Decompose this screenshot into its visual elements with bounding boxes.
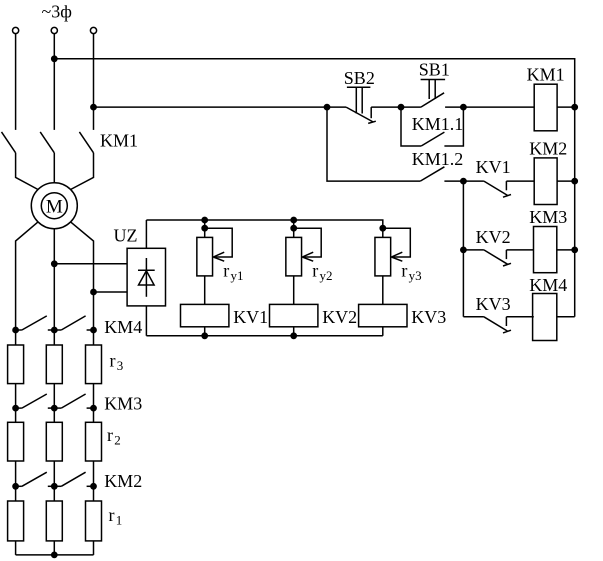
label r3 (110, 351, 124, 374)
wire KM2 row to r1 (15, 486, 17, 501)
svg-text:r: r (110, 351, 116, 371)
node rotor b to UZ (51, 261, 57, 267)
node KV branch top (461, 178, 467, 184)
relay coil KV3 (359, 304, 407, 326)
svg-text:KV3: KV3 (476, 294, 511, 314)
node phase C tap (91, 104, 97, 110)
resistor r3 col1 (8, 345, 24, 384)
label KV3 contact (476, 294, 511, 314)
node KM4 col1 (13, 327, 19, 333)
wire r3 to KM3 row (15, 384, 17, 409)
svg-text:KM1.1: KM1.1 (412, 114, 464, 134)
node right rail KM3 (572, 247, 578, 253)
wire pot ry2 to coil KV2 (293, 276, 295, 305)
wire KM2 row to r1 (93, 486, 95, 501)
node KM3 col1 (13, 405, 19, 411)
wire r1 to star point (53, 541, 55, 555)
contactor coil KM1 (534, 84, 557, 131)
wire phase C drop (93, 34, 95, 130)
node wiper tap ry3 (380, 225, 386, 231)
contact KM1 pole 2 blade (40, 132, 54, 153)
svg-text:KM4: KM4 (104, 317, 142, 337)
contact KM2 bridge 2-3 (54, 472, 93, 486)
wire r1 to star point (93, 541, 95, 555)
svg-text:3: 3 (117, 358, 124, 373)
label ry3 (401, 261, 421, 284)
svg-text:r: r (223, 261, 229, 281)
label KM2 rotor contacts (104, 471, 142, 491)
wire pot ry3 to coil KV3 (382, 276, 384, 305)
potentiometer ry1 body (197, 237, 213, 276)
button SB1 NO contact (401, 93, 463, 107)
resistor r3 col3 (86, 345, 102, 384)
wire r3 to KM3 row (93, 384, 95, 409)
svg-text:1: 1 (116, 513, 123, 528)
contact KM1.1 self-hold (401, 107, 463, 146)
svg-text:KM1: KM1 (527, 65, 565, 85)
contactor coil KM2 (534, 158, 557, 205)
label ry2 (312, 261, 332, 284)
label ~3φ net (42, 2, 72, 22)
svg-text:KM4: KM4 (529, 275, 567, 295)
wire UZ top to relay rail (145, 220, 147, 248)
node bottom rail KV1 (202, 333, 208, 339)
wiper arrow ry1 (205, 228, 233, 261)
label r1 (109, 505, 123, 528)
contact KV1 NC (463, 181, 533, 197)
wire rotor a (16, 222, 38, 330)
wire star bus (16, 554, 94, 556)
contact KM4 bridge 1-2 (16, 316, 55, 330)
node KM2 col3 (91, 483, 97, 489)
wire r2 to KM2 row (15, 461, 17, 486)
label KM4 rotor contacts (104, 317, 142, 337)
wire rail to pot ry2 (293, 220, 295, 237)
svg-text:UZ: UZ (114, 226, 138, 246)
node rail pot ry1 (202, 217, 208, 223)
svg-text:KM2: KM2 (529, 139, 567, 159)
wire rotor b (53, 229, 55, 330)
terminal L1 (13, 27, 19, 33)
node SB1 right tap (461, 104, 467, 110)
wire pole A to motor (16, 153, 38, 190)
contact KM2 bridge 1-2 (16, 472, 55, 486)
svg-text:KM3: KM3 (104, 394, 142, 414)
label KM4 coil (529, 275, 567, 295)
svg-text:KV1: KV1 (476, 157, 511, 177)
wire r2 to KM2 row (53, 461, 55, 486)
wire coil KV2 to bottom rail (293, 327, 295, 336)
label KV1 contact (476, 157, 511, 177)
wire coil KV1 to bottom rail (204, 327, 206, 336)
label KV3 coil (411, 307, 446, 327)
wire KV branch vertical (462, 181, 464, 317)
node SB1 left tap (398, 104, 404, 110)
node KV branch mid (461, 247, 467, 253)
node KM2 col1 (13, 483, 19, 489)
wire r1 to star point (15, 541, 17, 555)
wiper arrow ry3 (383, 228, 411, 261)
node KM3 col2 (51, 405, 57, 411)
wire coil KV3 to bottom rail (382, 327, 384, 336)
node KM1.2 branch tap (324, 104, 330, 110)
contact KM1.2 (327, 107, 463, 181)
label KV2 contact (476, 227, 511, 247)
wire col to r3 (53, 330, 55, 345)
label r2 (107, 425, 121, 448)
label SB1 (419, 59, 450, 79)
wire rotor b to UZ (54, 263, 127, 265)
svg-text:r: r (109, 505, 115, 525)
node KM4 col3 (91, 327, 97, 333)
svg-text:KV1: KV1 (233, 307, 268, 327)
resistor r1 col1 (8, 501, 24, 541)
node wiper tap ry2 (291, 225, 297, 231)
node phase B tap (51, 56, 57, 62)
node right rail KM2 (572, 178, 578, 184)
svg-text:KV2: KV2 (322, 307, 357, 327)
svg-text:~3ф: ~3ф (42, 2, 72, 22)
node right rail KM1 (572, 104, 578, 110)
motor M (31, 183, 77, 229)
wire phase B drop (53, 34, 55, 130)
label KM1.2 (412, 149, 464, 169)
potentiometer ry3 body (375, 237, 391, 276)
label KM3 coil (529, 207, 567, 227)
wire KM3 row to r2 (53, 408, 55, 422)
svg-text:r: r (401, 261, 407, 281)
wire pot ry1 to coil KV1 (204, 276, 206, 305)
svg-text:KM3: KM3 (529, 207, 567, 227)
svg-text:y2: y2 (320, 268, 333, 283)
wire coil KM2 to right rail (557, 180, 575, 182)
contactor coil KM4 (533, 294, 557, 341)
contact KV3 NC (463, 317, 533, 333)
resistor r3 col2 (46, 345, 62, 384)
wire KM2 row to r1 (53, 486, 55, 501)
svg-text:KM2: KM2 (104, 471, 142, 491)
resistor r1 col2 (46, 501, 62, 541)
wire control line from phase C (94, 106, 328, 108)
wire UZ bottom to relay rail (145, 306, 147, 336)
potentiometer ry2 body (286, 237, 302, 276)
resistor r2 col3 (86, 422, 102, 461)
resistor r2 col1 (8, 422, 24, 461)
label KM1.1 (412, 114, 464, 134)
svg-text:r: r (312, 261, 318, 281)
wire pole B to motor (53, 153, 55, 183)
node wiper tap ry1 (202, 225, 208, 231)
terminal L2 (51, 27, 57, 33)
contact KM4 bridge 2-3 (54, 316, 93, 330)
relay coil KV2 (270, 304, 318, 326)
wire coil KM3 to right rail (557, 249, 575, 251)
contact KM1 pole 1 blade (2, 132, 16, 153)
diode inside UZ (138, 258, 155, 297)
wire relay bottom rail (146, 335, 382, 337)
label SB2 (344, 68, 375, 88)
wire coil KM4 to right rail (557, 316, 575, 318)
svg-text:y3: y3 (409, 268, 422, 283)
wiper arrow ry2 (294, 228, 322, 261)
label KV1 coil (233, 307, 268, 327)
node KM4 col2 (51, 327, 57, 333)
label KM2 coil (529, 139, 567, 159)
label UZ (114, 226, 138, 246)
svg-text:r: r (107, 425, 113, 445)
node KM3 col3 (91, 405, 97, 411)
node rail pot ry2 (291, 217, 297, 223)
node bottom rail KV2 (291, 333, 297, 339)
label KV2 coil (322, 307, 357, 327)
wire r3 to KM3 row (53, 384, 55, 409)
button SB2 plunger (347, 87, 371, 113)
svg-text:KM1.2: KM1.2 (412, 149, 464, 169)
node KM2 col2 (51, 483, 57, 489)
wire SB1 to coil KM1 (463, 106, 534, 108)
wire KM3 row to r2 (15, 408, 17, 422)
resistor r2 col2 (46, 422, 62, 461)
contact KV2 NC (463, 250, 533, 266)
button SB2 NC contact (327, 107, 401, 123)
contact KM1 pole 3 blade (79, 132, 93, 153)
contactor coil KM3 (534, 227, 557, 273)
wire phase A drop (15, 34, 17, 130)
button SB1 plunger (421, 80, 446, 100)
contact KM3 bridge 1-2 (16, 394, 55, 408)
label KM1 stator contactor (100, 130, 138, 150)
label ry1 (223, 261, 243, 284)
svg-text:2: 2 (114, 433, 121, 448)
wire control rail top (54, 59, 574, 317)
svg-text:M: M (46, 196, 63, 217)
resistor r1 col3 (86, 501, 102, 541)
node star point (51, 552, 57, 558)
label KM3 rotor contacts (104, 394, 142, 414)
svg-text:SB2: SB2 (344, 68, 375, 88)
wire rotor c to UZ (94, 291, 128, 293)
wire rail to pot ry1 (204, 220, 206, 237)
wire rotor c (71, 222, 94, 330)
node rotor c to UZ (91, 289, 97, 295)
wire col to r3 (15, 330, 17, 345)
svg-text:y1: y1 (231, 268, 244, 283)
wire relay top rail (146, 220, 382, 237)
contact KM3 bridge 2-3 (54, 394, 93, 408)
svg-text:KM1: KM1 (100, 130, 138, 150)
svg-text:KV3: KV3 (411, 307, 446, 327)
terminal L3 (90, 27, 96, 33)
svg-text:KV2: KV2 (476, 227, 511, 247)
wire r2 to KM2 row (93, 461, 95, 486)
label KM1 coil (527, 65, 565, 85)
rectifier UZ box (127, 248, 165, 306)
wire coil KM1 to right rail (557, 106, 575, 108)
wire KM3 row to r2 (93, 408, 95, 422)
svg-text:SB1: SB1 (419, 59, 450, 79)
wire pole C to motor (71, 153, 94, 190)
relay coil KV1 (181, 304, 229, 326)
wire col to r3 (93, 330, 95, 345)
